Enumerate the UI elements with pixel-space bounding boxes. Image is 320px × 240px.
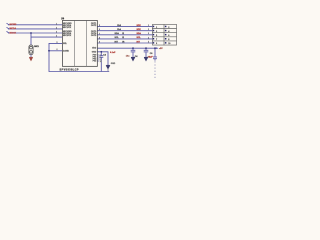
svg-text:10: 10 bbox=[100, 61, 102, 63]
svg-text:MICDA: MICDA bbox=[10, 27, 17, 30]
svg-text:7: 7 bbox=[99, 33, 100, 35]
svg-text:8: 8 bbox=[99, 37, 100, 39]
svg-text:5: 5 bbox=[148, 41, 149, 43]
svg-text:SDA: SDA bbox=[137, 32, 142, 35]
svg-text:1: 1 bbox=[56, 23, 57, 25]
svg-text:9: 9 bbox=[99, 42, 100, 44]
svg-text:MICCK: MICCK bbox=[10, 32, 17, 34]
svg-text:0.1uF: 0.1uF bbox=[110, 52, 116, 54]
svg-text:5: 5 bbox=[99, 25, 100, 27]
svg-text:GND: GND bbox=[111, 63, 116, 65]
svg-text:GND: GND bbox=[92, 52, 97, 54]
svg-text:5: 5 bbox=[57, 42, 58, 44]
svg-text:3: 3 bbox=[148, 33, 149, 35]
svg-text:OUT5: OUT5 bbox=[91, 35, 97, 37]
svg-text:MICWS: MICWS bbox=[10, 24, 18, 26]
svg-text:SDA: SDA bbox=[115, 32, 120, 35]
svg-text:MIC2/CK: MIC2/CK bbox=[63, 35, 72, 37]
svg-text:1: 1 bbox=[148, 25, 149, 27]
svg-text:2: 2 bbox=[148, 29, 149, 31]
svg-text:VDD: VDD bbox=[92, 48, 97, 50]
svg-text:SCL: SCL bbox=[115, 37, 120, 39]
svg-text:MIC1/CK: MIC1/CK bbox=[63, 27, 72, 29]
svg-text:MK1: MK1 bbox=[34, 46, 39, 48]
svg-text:SPK: SPK bbox=[137, 29, 142, 31]
svg-text:SCL: SCL bbox=[137, 37, 142, 39]
svg-text:2: 2 bbox=[56, 27, 57, 29]
svg-text:OUT2: OUT2 bbox=[91, 25, 97, 27]
svg-text:6: 6 bbox=[99, 29, 100, 31]
svg-text:AGND: AGND bbox=[63, 50, 69, 53]
svg-text:6: 6 bbox=[57, 49, 58, 51]
svg-text:SPK: SPK bbox=[137, 25, 142, 27]
svg-text:SPV0830LCP: SPV0830LCP bbox=[60, 68, 79, 71]
svg-text:4: 4 bbox=[56, 35, 57, 38]
svg-text:4: 4 bbox=[148, 36, 149, 39]
svg-text:3: 3 bbox=[56, 32, 57, 34]
